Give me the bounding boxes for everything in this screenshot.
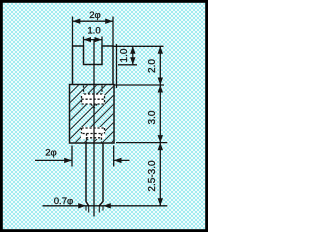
arrowhead down of 1.0 right — [130, 57, 135, 65]
dimension chain line (right) — [159, 46, 161, 206]
pin outline — [86, 143, 103, 206]
arrowhead down of 2.5-3.0 — [158, 198, 163, 206]
extension lines for top diameter dimension — [73, 17, 114, 46]
svg-text:0.7φ: 0.7φ — [54, 196, 74, 207]
dimension line 1.0 slot width (top) — [84, 39, 103, 41]
svg-text:2.5-3.0: 2.5-3.0 — [147, 160, 158, 192]
svg-text:3.0: 3.0 — [147, 110, 158, 124]
arrowhead of 0.7-phi pointing right — [78, 203, 86, 208]
center line — [93, 40, 95, 217]
tick at slot bottom level — [118, 64, 137, 66]
arrowhead of 0.7-phi pointing left — [103, 203, 111, 208]
dimension line 2-phi (top) — [73, 20, 114, 22]
hidden pin flange (dashed) — [82, 128, 105, 134]
arrowhead down of 2.0 — [158, 78, 163, 86]
tick at body top level — [114, 84, 164, 86]
arrowhead left of 2-phi top — [73, 19, 81, 24]
extension ticks for left 2-phi — [72, 146, 114, 167]
arrowhead up of 2.5-3.0 — [158, 143, 163, 151]
arrowhead of left 2-phi pointing left — [114, 158, 122, 163]
hidden center notch (dashed V) — [91, 104, 97, 108]
svg-text:2.0: 2.0 — [147, 59, 158, 73]
arrowhead up of 2.0 — [158, 46, 163, 54]
dimension line 1.0 slot depth (right) — [132, 46, 134, 65]
arrowhead up of 1.0 right — [130, 46, 135, 54]
svg-text:2φ: 2φ — [45, 148, 57, 159]
arrowhead right of 1.0 top — [95, 37, 103, 42]
hidden hole bottom (dashed) — [86, 137, 102, 139]
white knockout behind hidden cavity — [82, 94, 105, 105]
hidden internal cavity (dashed) — [82, 94, 105, 104]
hidden slot walls (dashed) — [84, 86, 103, 95]
svg-text:1.0: 1.0 — [87, 26, 100, 37]
hidden pin shank (dashed) — [87, 134, 102, 144]
arrowhead of left 2-phi pointing right — [64, 158, 72, 163]
body section outline — [70, 85, 115, 144]
tick at body bottom level — [116, 142, 167, 144]
extension line right of head — [116, 44, 118, 88]
svg-text:2φ: 2φ — [89, 10, 101, 21]
arrowhead left of 1.0 top — [84, 37, 92, 42]
arrowhead down of 3.0 — [158, 135, 163, 143]
extension lines for top slot width dimension — [84, 37, 103, 46]
pin tip extension lines — [86, 206, 103, 213]
arrowhead right of 2-phi top — [105, 19, 113, 24]
dimension leader 2-phi (left) — [35, 159, 130, 161]
svg-text:1.0: 1.0 — [119, 48, 130, 62]
white knockout behind hidden flange — [81, 127, 105, 139]
arrowhead up of 3.0 — [158, 85, 163, 93]
slotted head outline — [73, 46, 114, 85]
section hatching — [70, 85, 113, 142]
tick at head top level — [113, 45, 164, 47]
dimension line 0.7-phi and pin tip extension — [43, 205, 168, 207]
